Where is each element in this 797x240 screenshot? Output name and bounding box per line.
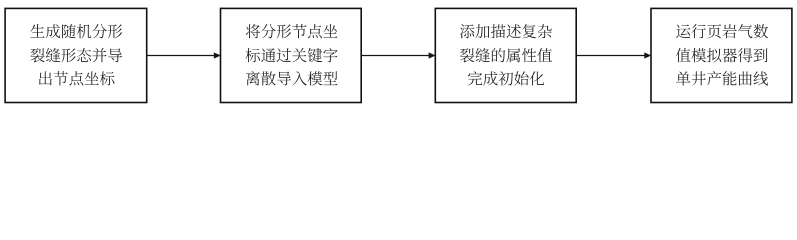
process box 2: 将分形节点坐标通过关键字离散导入模型 (221, 8, 362, 102)
box 3 text line 3: 完成初始化 (468, 71, 544, 85)
box 1 text line 3: 出节点坐标 (39, 71, 114, 85)
box 2 text line 1: 将分形节点坐 (246, 24, 338, 38)
box 1 text line 1: 生成随机分形 (30, 24, 122, 38)
box 1 text line 2: 裂缝形态并导 (30, 48, 122, 62)
box 2 text line 3: 离散导入模型 (246, 71, 338, 85)
box 4 text line 2: 值模拟器得到 (676, 48, 768, 62)
arrow 1: box 1 to box 2 (148, 52, 221, 58)
process box 1: 生成随机分形裂缝形态并导出节点坐标 (5, 8, 147, 102)
process box 3: 添加描述复杂裂缝的属性值完成初始化 (435, 8, 576, 102)
box 4 text line 3: 单井产能曲线 (676, 71, 768, 85)
box 3 text line 2: 裂缝的属性值 (460, 48, 552, 62)
process box 4: 运行页岩气数值模拟器得到单井产能曲线 (651, 8, 792, 102)
box 4 text line 1: 运行页岩气数 (676, 24, 768, 38)
arrow 3: box 3 to box 4 (577, 52, 651, 58)
box 2 text line 2: 标通过关键字 (246, 48, 338, 62)
arrow 2: box 2 to box 3 (362, 52, 436, 58)
box 3 text line 1: 添加描述复杂 (460, 24, 552, 38)
